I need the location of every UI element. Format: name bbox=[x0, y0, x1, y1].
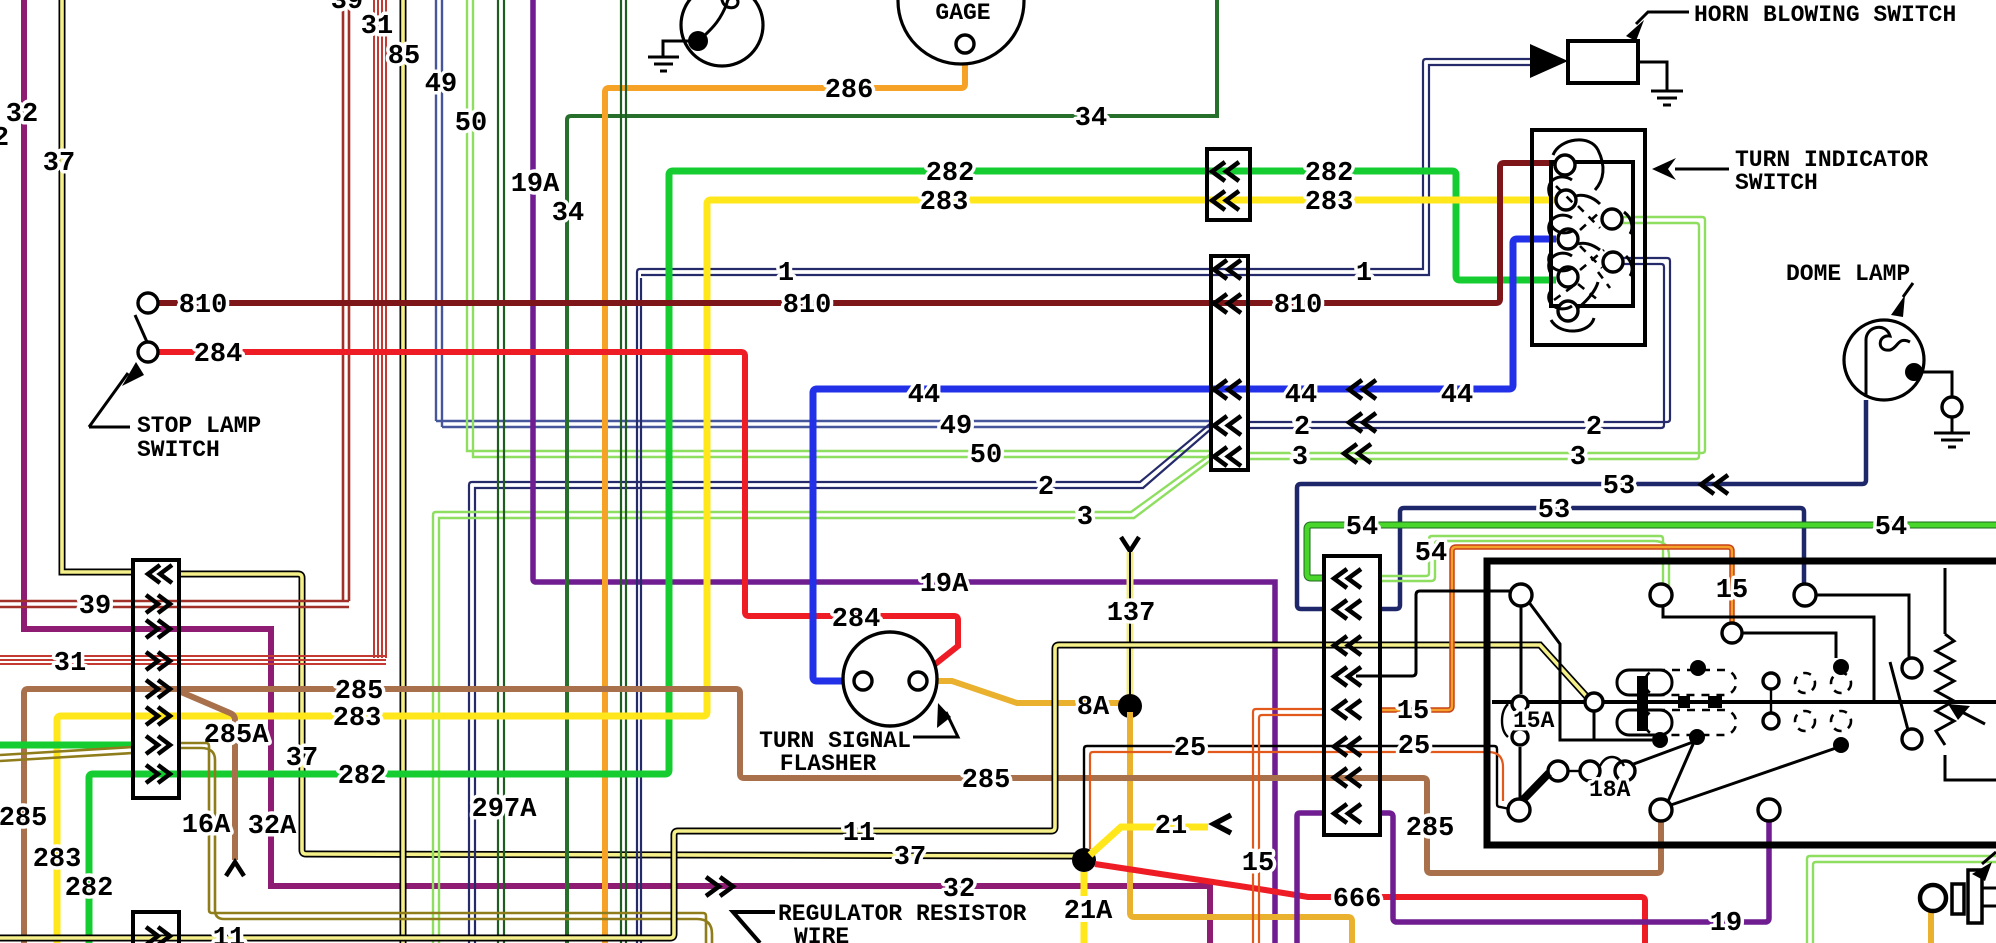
wire 85 yellow-black vertical bbox=[388, 0, 420, 943]
svg-text:285A: 285A bbox=[204, 721, 270, 751]
svg-text:285: 285 bbox=[1406, 814, 1455, 844]
connector box right column bbox=[1324, 556, 1380, 835]
svg-text:21A: 21A bbox=[1064, 897, 1113, 927]
svg-text:810: 810 bbox=[783, 291, 832, 321]
headlight switch interior pins and contacts bbox=[1502, 584, 1922, 821]
instrument lamp (top center) with ground bbox=[648, 0, 763, 71]
svg-text:2: 2 bbox=[1586, 413, 1602, 443]
svg-text:31: 31 bbox=[54, 649, 86, 679]
svg-text:50: 50 bbox=[970, 441, 1002, 471]
wire 21A yellow dashed below dot2 bbox=[1064, 872, 1113, 943]
light green double wire bottom right bbox=[1807, 856, 1996, 943]
turn indicator switch bbox=[1532, 130, 1928, 345]
wire 285 brown: bottom-left vertical, through left box, down at 740, right run, through right connector, to light switch bbox=[0, 677, 1661, 943]
svg-text:19: 19 bbox=[1710, 909, 1742, 939]
svg-text:283: 283 bbox=[1305, 188, 1354, 218]
wire 283 yellow: bottom-left vertical, run through left box, up at 707, top run to turn switch bbox=[33, 188, 1556, 943]
svg-text:285: 285 bbox=[962, 766, 1011, 796]
svg-text:282: 282 bbox=[926, 159, 975, 189]
svg-text:810: 810 bbox=[1274, 291, 1323, 321]
svg-text:54: 54 bbox=[1415, 539, 1447, 569]
svg-text:39: 39 bbox=[331, 0, 363, 17]
svg-text:284: 284 bbox=[194, 340, 243, 370]
wire 34 dark green: vertical to top right corner run bbox=[552, 0, 1217, 943]
svg-text:31: 31 bbox=[361, 12, 393, 42]
svg-text:25: 25 bbox=[1398, 732, 1430, 762]
svg-text:810: 810 bbox=[179, 291, 228, 321]
left connector box upper bbox=[133, 560, 179, 798]
svg-text:137: 137 bbox=[1107, 599, 1156, 629]
svg-text:1: 1 bbox=[778, 259, 794, 289]
svg-text:STOP LAMP: STOP LAMP bbox=[137, 413, 261, 439]
connector box main column bbox=[1211, 256, 1248, 470]
wire 21 yellow: from dot2 diagonal up-right, ends at inline connector < bbox=[1090, 812, 1231, 855]
wire 666 red: from dot2 diagonal down-right, right run, down at 1645 bbox=[1095, 864, 1645, 943]
svg-text:11: 11 bbox=[843, 819, 875, 849]
wire 44 blue: turn switch pin, down at 1513, long left run, down at 813 to flasher bbox=[813, 239, 1556, 681]
svg-text:21: 21 bbox=[1155, 812, 1187, 842]
svg-text:282: 282 bbox=[65, 874, 114, 904]
svg-text:19A: 19A bbox=[511, 170, 560, 200]
svg-text:283: 283 bbox=[920, 188, 969, 218]
wire 286 orange: gauge terminal down and left, then down to bottom bbox=[605, 53, 965, 943]
svg-text:16A: 16A bbox=[182, 811, 231, 841]
wire 19 purple: connector row down at 1297; right side down at 1393, right run, up at 1769 to light-switch pin bbox=[1297, 804, 1769, 943]
headlight switch box bbox=[1487, 561, 1996, 845]
svg-text:49: 49 bbox=[940, 412, 972, 442]
svg-text:54: 54 bbox=[1875, 513, 1907, 543]
wire 32 purple: vertical left, through connector, down via 32A to bottom run bbox=[6, 0, 1210, 943]
gold wire from dot1 down, right at 917, down at 1352 bbox=[1130, 712, 1352, 943]
dome lamp with ground bbox=[1786, 261, 1970, 447]
svg-text:GAGE: GAGE bbox=[935, 0, 990, 26]
wire 54 light green double: connector to light-switch pin bbox=[1380, 536, 1669, 586]
svg-text:49: 49 bbox=[425, 70, 457, 100]
wire 49 navy double: vertical then right to connector bbox=[425, 0, 1211, 442]
condenser symbol bottom right bbox=[1920, 852, 1996, 923]
svg-text:34: 34 bbox=[1075, 104, 1107, 134]
svg-text:19A: 19A bbox=[920, 570, 969, 600]
svg-text:50: 50 bbox=[455, 109, 487, 139]
regulator resistor wire label bbox=[733, 901, 1027, 943]
wire 810 dark maroon: stop-lamp terminal to turn switch bbox=[158, 163, 1556, 321]
wire 37 yellow-black: vertical left, through connector, down and right to junction bbox=[43, 0, 1078, 873]
svg-text:HORN BLOWING SWITCH: HORN BLOWING SWITCH bbox=[1694, 2, 1956, 28]
svg-text:54: 54 bbox=[1346, 513, 1378, 543]
svg-text:666: 666 bbox=[1333, 885, 1382, 915]
left connector box lower bbox=[133, 912, 179, 943]
unnamed dark green double vertical bbox=[621, 0, 626, 943]
svg-text:286: 286 bbox=[825, 76, 874, 106]
svg-text:2: 2 bbox=[0, 124, 9, 154]
svg-text:8A: 8A bbox=[1077, 693, 1110, 723]
svg-text:285: 285 bbox=[335, 677, 384, 707]
svg-text:37: 37 bbox=[894, 843, 926, 873]
junction dot2 bbox=[1072, 848, 1096, 872]
svg-text:15: 15 bbox=[1397, 697, 1429, 727]
svg-text:283: 283 bbox=[33, 845, 82, 875]
wire 19A purple: vertical, right run at 582, down at 1275 bbox=[511, 0, 1275, 943]
svg-text:25: 25 bbox=[1174, 734, 1206, 764]
svg-text:2: 2 bbox=[1038, 473, 1054, 503]
wire 11 yellow-black: bottom run through box2, up at 674, right at 831, up at 1055, right through connector into light switch bbox=[0, 636, 1588, 943]
svg-text:15: 15 bbox=[1242, 849, 1274, 879]
svg-text:282: 282 bbox=[338, 762, 387, 792]
svg-text:32: 32 bbox=[6, 100, 38, 130]
svg-text:3: 3 bbox=[1570, 443, 1586, 473]
svg-text:1: 1 bbox=[1356, 259, 1372, 289]
svg-text:WIRE: WIRE bbox=[794, 924, 849, 943]
svg-text:39: 39 bbox=[79, 592, 111, 622]
svg-text:32A: 32A bbox=[248, 812, 297, 842]
stop lamp switch bbox=[89, 293, 261, 463]
wire 53 navy: dome lamp down, left run, down at 1297, through connector, up at 1400, right run, down at 1804 into light switch bbox=[1297, 400, 1866, 619]
svg-text:37: 37 bbox=[286, 744, 318, 774]
svg-text:DOME LAMP: DOME LAMP bbox=[1786, 261, 1910, 287]
wire 31 red striped bbox=[0, 0, 393, 679]
svg-text:283: 283 bbox=[333, 704, 382, 734]
svg-text:15: 15 bbox=[1716, 576, 1748, 606]
wire 25 black+orange double: from dot2 up, right through connector, into light switch bbox=[1084, 732, 1510, 849]
svg-text:37: 37 bbox=[43, 149, 75, 179]
junction dot1 bbox=[1118, 694, 1142, 718]
wire 15 orange: double vertical from bottom, through connector, single up at 1452, right run, down at 1732 to light-switch pin bbox=[1242, 547, 1748, 943]
svg-text:297A: 297A bbox=[472, 795, 538, 825]
black wire row: lone chevron, right of connector up to light switch bbox=[1334, 591, 1511, 686]
wire 39 dark red double bbox=[0, 0, 363, 622]
wire 50 light green double: vertical then right to connector bbox=[455, 0, 1211, 471]
svg-text:SWITCH: SWITCH bbox=[137, 437, 220, 463]
svg-text:44: 44 bbox=[1441, 381, 1473, 411]
turn signal flasher bbox=[759, 632, 958, 777]
svg-text:SWITCH: SWITCH bbox=[1735, 170, 1818, 196]
svg-text:18A: 18A bbox=[1589, 777, 1631, 803]
svg-text:34: 34 bbox=[552, 199, 584, 229]
svg-text:FLASHER: FLASHER bbox=[780, 751, 877, 777]
wire 3 light green double: from turn switch pin down, left to connector, diagonal, long left run, down to bottom bbox=[433, 217, 1705, 943]
gold wire bottom right to condenser bbox=[1928, 908, 1934, 943]
wire 2 navy double: from turn switch pin down, left to connector, diagonal down-left, long left run, down to bottom bbox=[469, 258, 1670, 943]
horn blowing switch bbox=[1530, 2, 1956, 105]
svg-text:85: 85 bbox=[388, 42, 420, 72]
svg-text:284: 284 bbox=[832, 605, 881, 635]
wire 297A dark green double vertical bbox=[472, 0, 538, 943]
svg-text:282: 282 bbox=[1305, 159, 1354, 189]
svg-text:3: 3 bbox=[1077, 503, 1093, 533]
svg-text:2: 2 bbox=[1294, 413, 1310, 443]
wire 137 pale yellow w/ black tracer, V arrow top bbox=[1107, 537, 1156, 700]
fuel gauge (top center) bbox=[898, 0, 1024, 64]
wire 285A brown stub with up-arrow terminal bbox=[181, 692, 269, 876]
svg-text:53: 53 bbox=[1603, 472, 1635, 502]
wire 282 bright green: bottom-left vertical, run through left box, up at 669, top run to turn switch bbox=[65, 159, 1556, 943]
rheostat resistor inside switch bbox=[1936, 568, 1996, 780]
connector box 282/283 bbox=[1207, 149, 1250, 220]
svg-text:15A: 15A bbox=[1513, 708, 1555, 734]
svg-text:44: 44 bbox=[908, 381, 940, 411]
svg-text:11: 11 bbox=[213, 924, 245, 943]
wire 54 bright green: right edge run, down at 1307 into connector bbox=[1307, 513, 1996, 588]
wire 8A gold: flasher pin to junction dot1 bbox=[928, 681, 1119, 723]
svg-text:3: 3 bbox=[1292, 443, 1308, 473]
wire 16A olive double: green feed into left box, olive out, down at 212, right run, down at 709 bbox=[0, 736, 712, 943]
wire 284 red: stop-lamp terminal right, down at 745, right to flasher bbox=[158, 340, 958, 673]
wire 1 navy double: horizontal run, up at 1426 to horn bbox=[637, 59, 1530, 943]
svg-text:285: 285 bbox=[0, 804, 47, 834]
svg-text:44: 44 bbox=[1285, 381, 1317, 411]
